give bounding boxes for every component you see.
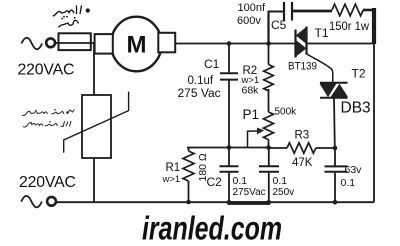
label 390V equivalent (Persian) line 1 approximation xyxy=(22,110,75,116)
node dot 63v cap bottom rail xyxy=(333,200,338,205)
AC source top terminal ring xyxy=(46,38,55,47)
capacitor C1 bottom lead xyxy=(228,81,230,148)
varistor body rect xyxy=(82,95,111,158)
wire control bus horizontal xyxy=(187,147,269,149)
fuse F (10A) body xyxy=(59,33,91,50)
node dot P1 bottom xyxy=(266,145,271,150)
AC source top squiggle xyxy=(22,38,43,50)
wire diac to node xyxy=(333,98,336,148)
svg-text:C2: C2 xyxy=(207,175,223,189)
svg-text:0.1: 0.1 xyxy=(273,175,288,187)
wire triac to right corner xyxy=(307,43,375,45)
motor M rotor circle xyxy=(111,17,162,72)
node dot R2/C5 rail xyxy=(266,41,271,46)
diac T2 bottom bar xyxy=(320,97,348,99)
node dot R1 bottom rail xyxy=(186,200,191,205)
svg-text:600v: 600v xyxy=(237,15,261,27)
svg-text:220VAC: 220VAC xyxy=(18,62,75,79)
svg-text:M: M xyxy=(127,32,147,59)
capacitor 63v 0.1 top lead xyxy=(334,148,336,166)
wire main live rail motor to triac xyxy=(175,43,295,45)
resistor R3 zigzag xyxy=(287,143,316,153)
capacitor 0.1 250v top lead xyxy=(268,148,270,167)
resistor R2 zigzag xyxy=(264,65,274,91)
capacitor 63v 0.1 plates xyxy=(325,166,348,171)
svg-text:220VAC: 220VAC xyxy=(19,174,76,191)
P1 wiper wire xyxy=(248,131,259,148)
svg-text:150r 1w: 150r 1w xyxy=(329,19,369,33)
wire varistor branch vertical xyxy=(93,43,95,95)
wire bottom neutral rail xyxy=(56,201,375,203)
svg-text:C1: C1 xyxy=(204,57,220,71)
svg-text:275Vac: 275Vac xyxy=(233,187,266,198)
wire R2 to P1 xyxy=(268,89,270,112)
label 275V effective (Persian) line 2 approximation xyxy=(23,121,71,127)
resistor R3 right lead xyxy=(316,147,335,149)
wire snubber top rail left xyxy=(268,11,285,13)
resistor R1 top lead xyxy=(188,148,190,152)
diac T2 down triangle xyxy=(320,84,337,98)
varistor diagonal stroke xyxy=(64,92,129,153)
potentiometer P1 zigzag xyxy=(264,112,274,140)
resistor R1 zigzag xyxy=(183,151,194,181)
capacitor C2 top lead xyxy=(228,148,230,167)
wire snubber left leg xyxy=(267,12,269,44)
svg-text:500k: 500k xyxy=(275,107,298,118)
wire snubber right leg (thick) xyxy=(372,8,376,44)
resistor R2 top lead xyxy=(268,44,270,65)
capacitor 0.1 250v bottom lead xyxy=(268,173,270,203)
svg-text:63v: 63v xyxy=(345,164,363,176)
resistor R3 left lead xyxy=(269,147,287,149)
node dot C1/C2 bus xyxy=(227,145,232,150)
svg-text:P1: P1 xyxy=(243,107,260,122)
P1 wiper arrowhead xyxy=(257,128,264,135)
triac T1 MT1 bar xyxy=(305,27,307,55)
node dot C2 bottom rail xyxy=(227,200,232,205)
motor left brush xyxy=(95,34,113,54)
svg-text:T1: T1 xyxy=(315,26,329,40)
triac T1 upper triangle xyxy=(296,27,307,44)
potentiometer P1 bottom lead xyxy=(268,140,270,148)
label 10 Amp (Persian) approximation xyxy=(53,6,82,17)
wire bottom rail thick segment xyxy=(228,201,271,205)
svg-text:100nf: 100nf xyxy=(238,2,266,14)
node dot R3/diac/cap xyxy=(333,146,338,151)
triac T1 MT2 bar xyxy=(294,30,296,58)
triac T1 lower triangle xyxy=(296,40,307,57)
wire ring to fuse xyxy=(55,42,59,44)
svg-text:BT139: BT139 xyxy=(288,60,317,72)
svg-text:iranled.com: iranled.com xyxy=(142,210,282,246)
motor right brush xyxy=(158,33,175,53)
svg-text:T2: T2 xyxy=(352,66,366,80)
varistor bottom lead wire xyxy=(93,158,95,202)
svg-text:0.1: 0.1 xyxy=(341,177,356,189)
svg-text:0.1: 0.1 xyxy=(233,175,248,187)
capacitor C5 plates xyxy=(284,2,292,21)
capacitor C1 plates xyxy=(220,73,238,79)
capacitor 0.1 250v plates xyxy=(259,166,279,171)
wire snubber top rail mid (thick) xyxy=(292,10,332,13)
AC source bottom terminal ring xyxy=(47,197,56,206)
svg-text:C5: C5 xyxy=(271,18,287,32)
wire through fuse to motor brush xyxy=(59,42,97,44)
AC source bottom squiggle xyxy=(21,196,42,208)
svg-text:68k: 68k xyxy=(242,85,260,97)
capacitor C2 bottom lead xyxy=(228,173,230,203)
svg-text:R1: R1 xyxy=(166,162,181,174)
svg-text:w>1: w>1 xyxy=(162,174,181,185)
wire snubber top rail right lead xyxy=(363,9,374,12)
capacitor C2 plates xyxy=(220,166,239,171)
capacitor 63v 0.1 bottom lead xyxy=(334,173,336,202)
resistor 150r 1w zigzag xyxy=(332,4,363,16)
svg-text:47K: 47K xyxy=(292,157,313,169)
label fuse (Persian) approximation xyxy=(59,20,79,27)
svg-text:DB3: DB3 xyxy=(341,100,371,117)
diac T2 top bar xyxy=(320,82,348,84)
svg-text:R3: R3 xyxy=(295,130,310,142)
wire right side return xyxy=(373,44,375,203)
resistor R1 bottom lead xyxy=(188,181,190,202)
wire triac gate to diac xyxy=(307,54,333,83)
node dot C1 top rail xyxy=(227,41,232,46)
svg-text:275 Vac: 275 Vac xyxy=(178,86,221,100)
node dot 250v cap bottom rail xyxy=(267,200,272,205)
diac T2 up triangle xyxy=(331,84,349,97)
svg-text:250v: 250v xyxy=(273,187,295,198)
capacitor C1 top lead xyxy=(228,44,230,73)
